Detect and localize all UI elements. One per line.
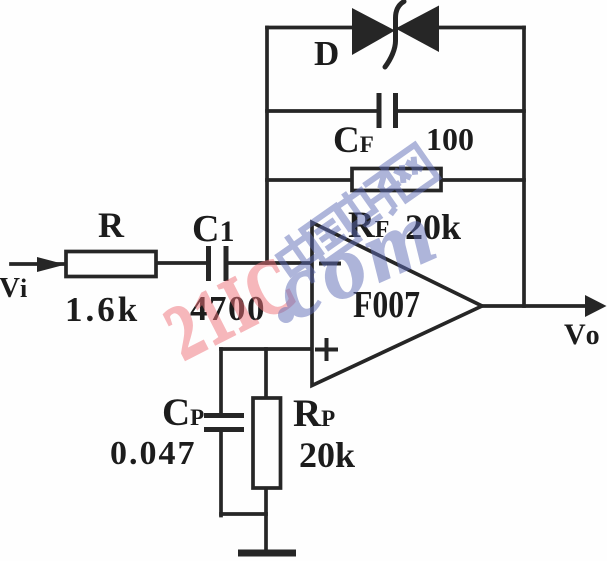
wire C1 to inverting input	[226, 261, 312, 265]
wire RF branch right segment	[441, 178, 524, 182]
svg-text:Vo: Vo	[564, 318, 600, 351]
capacitor CP plates	[204, 416, 244, 430]
diode D bidirectional zener right triangle	[396, 6, 440, 53]
wire top feedback branch right segment	[439, 26, 524, 30]
svg-text:CF: CF	[333, 120, 374, 161]
wire CF branch right segment	[396, 109, 524, 113]
char wang	[383, 145, 438, 200]
char dian	[331, 182, 382, 234]
wire CP top lead	[219, 349, 223, 415]
wire bottom joining CP and RP	[221, 512, 266, 516]
wire right vertical feedback bus	[522, 28, 526, 307]
char zhong	[272, 225, 329, 284]
resistor RF box	[352, 169, 441, 191]
svg-text:1.6k: 1.6k	[65, 290, 140, 329]
input arrow head	[37, 257, 66, 272]
svg-text:D: D	[314, 34, 339, 73]
svg-text:CP: CP	[162, 391, 204, 434]
svg-text:20k: 20k	[299, 435, 355, 475]
watermark blue dot before com	[278, 307, 294, 323]
resistor R1.6k box	[66, 252, 156, 277]
wire input from Vi	[11, 262, 66, 266]
diode D zener bar	[385, 2, 404, 68]
svg-text:100: 100	[426, 121, 474, 157]
wire RP top lead	[264, 349, 268, 398]
svg-text:Vi: Vi	[0, 272, 27, 304]
svg-text:0.047: 0.047	[110, 435, 197, 472]
capacitor CF plates	[379, 93, 396, 128]
char zi	[360, 168, 412, 221]
resistor RP box	[253, 398, 281, 488]
wire RP bottom lead to ground	[264, 488, 268, 551]
wire CP bottom lead	[219, 430, 223, 516]
diode D bidirectional zener left triangle	[352, 8, 395, 55]
wire RF branch left segment	[267, 178, 352, 182]
watermark chinese characters blue	[272, 145, 438, 285]
wire CF branch left segment	[267, 109, 379, 113]
watermark com script blue	[262, 183, 454, 339]
wire R to C1	[156, 261, 208, 265]
op-amp noninverting pin plus sign	[315, 338, 338, 361]
svg-text:C1: C1	[192, 208, 234, 250]
capacitor C1 plates	[209, 246, 227, 281]
wire left vertical feedback bus	[265, 28, 269, 264]
watermark 21IC pink text	[152, 240, 310, 377]
wire top feedback branch left segment	[267, 26, 352, 30]
output arrow head	[585, 295, 607, 317]
op-amp inverting pin minus sign	[319, 262, 341, 266]
op-amp U1 F007 triangle	[312, 223, 482, 386]
ground	[238, 550, 296, 557]
svg-text:R: R	[98, 205, 125, 245]
wire noninverting input	[221, 347, 312, 351]
char guo	[302, 206, 359, 263]
wire output	[482, 304, 592, 308]
svg-text:RP: RP	[293, 392, 335, 435]
